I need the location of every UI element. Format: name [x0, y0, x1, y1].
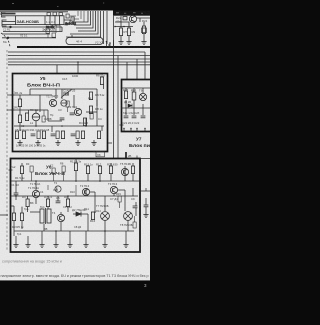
resistor R (far right)	[142, 26, 145, 34]
У6 transistor T3	[110, 186, 117, 193]
У6 cap C1	[14, 193, 19, 195]
block У5 frame	[13, 74, 108, 152]
vertical bus drop x113	[113, 16, 115, 158]
У5 ground 5	[91, 140, 96, 145]
У6 cap near right edge	[133, 206, 138, 208]
faint print specks in notch	[116, 12, 119, 13]
У6 top rail	[11, 180, 141, 182]
junction on node row	[10, 26, 12, 28]
У7 drops to caps	[125, 100, 127, 115]
У5 pin н tick right	[108, 142, 112, 144]
У6 ground row 7	[102, 242, 107, 247]
У7 resistor	[124, 91, 127, 99]
vertical bus drop x118	[117, 56, 119, 159]
У5 bottom cap a	[31, 134, 36, 136]
outer ground right of У6	[143, 212, 148, 217]
ground (far right)	[141, 39, 146, 44]
У5 cap C2	[60, 118, 65, 120]
У7 inner mid rail	[122, 107, 151, 109]
У5 bottom cap b	[51, 134, 56, 136]
wire across right cluster	[115, 26, 133, 28]
block У7 frame (right, power)	[122, 80, 151, 132]
У5 drop 3	[39, 95, 41, 112]
wire exiting У6 right edge	[140, 190, 150, 192]
exit wire tick	[145, 188, 147, 191]
wire left of transistor	[115, 21, 130, 23]
У6 bottom border junction dots	[27, 251, 117, 253]
У7 pin tick left	[120, 124, 124, 126]
bottom black photo bar	[0, 280, 150, 325]
У7 drop a	[125, 88, 127, 91]
У6 resistor R1 left	[20, 166, 23, 174]
У6 ground row 6	[83, 242, 88, 247]
bus wire 4	[8, 61, 150, 63]
У5 bottom row part 4	[61, 131, 64, 139]
vertical feed wire 2	[128, 22, 130, 28]
paper background	[0, 11, 150, 282]
У7 cap bank 3	[141, 116, 146, 118]
У6 resistor near T7	[91, 212, 94, 220]
tick on exit wire	[136, 156, 138, 159]
nested drop wire d	[78, 11, 96, 31]
У6 transistor T5	[121, 168, 128, 175]
У5 transistor T2	[74, 108, 81, 115]
tick pair above separator right	[113, 40, 115, 47]
connector ticks right of sleeve	[107, 42, 111, 47]
connector plug top-left 2	[2, 20, 7, 26]
wire above filter row 1	[0, 11, 68, 13]
У5 pin 2 tick	[11, 109, 15, 111]
У6 transistor T1	[32, 190, 39, 197]
wire exit right of У6	[140, 158, 150, 160]
plug pin wires	[2, 12, 16, 14]
У7 drop b	[133, 88, 135, 92]
У6 ground row 3	[39, 242, 44, 247]
small cap mark	[47, 13, 50, 16]
small res mark 2	[59, 13, 62, 16]
У5 IF transformer circle	[61, 100, 67, 106]
small component marks cluster above connector	[46, 12, 76, 29]
У5 bottom row part 1	[15, 131, 18, 139]
У6 resistor R13	[74, 163, 77, 171]
У6 ground row 1	[13, 242, 18, 247]
У5 wire row C (emitter rail)	[14, 125, 104, 127]
У5 drop from top rail	[29, 89, 31, 95]
nested drop wire f	[66, 11, 101, 37]
cable sleeve loop above separator	[66, 38, 103, 45]
У5 mid extra marks	[42, 101, 93, 122]
wire right of filter step	[64, 20, 75, 24]
У6 junction dots	[15, 180, 106, 232]
У6 drop f	[124, 166, 126, 181]
У6 resistor row3 b	[20, 213, 23, 221]
vertical bus drop x145	[144, 52, 146, 79]
sleeve left tick	[71, 35, 73, 38]
У7 drop c	[142, 88, 144, 93]
dashed screen curve bottom-left	[1, 33, 10, 47]
bus wire 5	[8, 64, 150, 66]
У7 choke winding 1	[132, 92, 136, 100]
wire lower mid row	[2, 33, 50, 35]
У7 cap bank 1	[124, 116, 129, 118]
У6 resistor R15	[86, 166, 89, 174]
У5 top-right resistor	[100, 77, 103, 85]
wire from transistor to right edge	[137, 17, 151, 19]
У7 inner top rail	[122, 87, 151, 89]
small cap far right	[142, 28, 147, 33]
У6 transformer Тр1 core	[40, 208, 51, 224]
У5 ground 2	[35, 140, 40, 145]
У7 pin ticks bottom	[124, 128, 145, 132]
dust specks in top bar	[12, 3, 14, 4]
У5 top-right drop	[103, 85, 105, 89]
У5 bottom border junction dots	[19, 151, 95, 153]
У5 bottom row part 3	[42, 131, 45, 139]
small marks under cluster	[66, 14, 69, 18]
У6 resistor row3 a	[12, 213, 15, 221]
У5 drop 2	[61, 89, 63, 99]
connector tag above У6	[96, 152, 105, 157]
У6 drop c	[87, 165, 89, 181]
top-right transistor stage	[115, 15, 150, 28]
long vertical to connector 2	[106, 11, 108, 44]
У6 small transistor extra	[55, 186, 61, 192]
У7 cap bank 2	[132, 116, 137, 118]
plug 2 pin wires	[2, 21, 16, 23]
У6 extra wiring grid	[11, 181, 137, 236]
resistor R (top right 1)	[119, 28, 122, 36]
wire above filter row 2	[0, 13, 16, 15]
nested drop wire c	[76, 11, 93, 28]
arrow tap on chassis line	[0, 214, 8, 216]
У6 drop e	[110, 163, 112, 166]
У6 ground row 5	[67, 242, 72, 247]
У5 pin 1 tick	[11, 94, 15, 96]
У5 resistor R2	[18, 115, 21, 123]
top-right black notch	[113, 11, 150, 16]
long vertical to connector	[103, 11, 105, 44]
У5 bottom extra rects	[37, 131, 40, 139]
У6 ground row 8	[123, 242, 128, 247]
У7 transistor (regulator)	[139, 93, 146, 100]
block У6 frame	[11, 159, 141, 253]
У6 cap row2 b	[56, 201, 61, 203]
У5 right rail drop	[96, 89, 98, 126]
nested drop wire a	[72, 11, 88, 22]
tick dots	[106, 41, 108, 43]
wire node row below filter	[2, 26, 46, 28]
У6 resistor R17	[98, 166, 101, 174]
У6 low rail	[14, 230, 134, 232]
junction on lower wire	[7, 37, 9, 39]
У5 resistor R5	[83, 118, 86, 126]
У6 ground row 2	[25, 242, 30, 247]
У6 left pin tick	[9, 169, 13, 171]
connector plug top-left 1	[2, 12, 6, 17]
staircase wire 2 from filter	[56, 25, 62, 27]
staircase wire 3	[46, 25, 60, 27]
extra texture marks top section	[46, 11, 84, 38]
vertical bus drop x127	[126, 62, 128, 79]
nested drop wire b	[74, 11, 91, 25]
У5 resistor R1	[18, 99, 21, 107]
ground (top right 2)	[126, 39, 131, 44]
У5 resistor R3	[25, 113, 28, 121]
base components mark	[123, 17, 127, 20]
mark cluster a	[46, 29, 49, 33]
У5 trimmer C14	[61, 89, 72, 98]
У5 wire row A	[13, 94, 53, 96]
У5 resistor R6	[89, 92, 92, 100]
wire lower row	[2, 37, 56, 39]
У5 extra wires	[20, 89, 102, 132]
bus tap into У5 second	[56, 65, 58, 73]
У5 mid rail junction dots	[35, 125, 87, 127]
У5 bottom row part 5	[81, 131, 84, 139]
resistor R (top right 2)	[127, 28, 130, 36]
thick separator line / figure border	[17, 46, 150, 48]
У6 ground row 4	[53, 242, 58, 247]
outer wire right of У6	[145, 198, 147, 205]
У5 transistor T1	[49, 99, 56, 106]
У5 coil L1	[32, 113, 40, 121]
У5 ground 1	[17, 140, 22, 145]
transistor T (top right)	[129, 15, 136, 22]
wire drops to grounds	[121, 18, 144, 39]
ground (top right 1)	[118, 39, 123, 44]
bus wire 3	[8, 58, 150, 60]
У6 drop d	[99, 165, 101, 181]
dashed chassis line left	[6, 50, 8, 250]
У6 output transistor T7	[101, 212, 110, 221]
У6 resistor R20	[109, 166, 112, 174]
У6 resistor row2 a	[46, 199, 49, 207]
У6 ground stubs	[16, 231, 126, 242]
У6 resistor row2 c	[66, 199, 69, 207]
top black photo bar	[0, 0, 150, 11]
У7 diode mark	[128, 104, 132, 108]
У6 drop g	[132, 163, 134, 181]
У6 resistor R21	[131, 166, 134, 174]
У5 bottom row part 6	[97, 131, 100, 139]
vertical bus drop x137	[136, 59, 138, 79]
У5 ground 3	[55, 140, 60, 145]
filter block (top-left rectangle)	[16, 16, 65, 25]
filter block section dividers	[44, 16, 46, 25]
scan grain overlay	[0, 11, 150, 282]
У5 ground 4	[75, 140, 80, 145]
bus wire 1	[8, 51, 145, 53]
У6 vol pot	[26, 199, 29, 212]
outer cap right of У6	[144, 205, 149, 207]
У5 resistor R8	[89, 106, 92, 114]
vertical feed wire	[120, 16, 122, 28]
У6 output transistor T8	[124, 212, 133, 221]
У6 transistor T2	[82, 188, 89, 195]
У6 drop b	[75, 159, 77, 164]
У5 bottom cap c	[71, 134, 76, 136]
У6 transistor T4	[57, 214, 64, 221]
bus tap into У5	[77, 62, 79, 73]
У7 pin dots	[123, 128, 124, 129]
mark cluster b vertical stubs under bar	[77, 11, 79, 16]
У5 cap C3	[70, 113, 75, 115]
nested drop wire e	[70, 11, 98, 34]
У6 drop a	[21, 163, 23, 166]
У6 mid rail	[11, 195, 139, 197]
У5 top rail	[30, 88, 97, 90]
wire label row	[3, 27, 62, 32]
У6 extra marks	[30, 166, 136, 228]
У6 diode Д1	[76, 212, 81, 217]
У5 bottom row part 2	[22, 131, 25, 139]
small res mark	[53, 12, 56, 15]
У5 pin wires from chassis	[7, 94, 13, 96]
У6 top-right bold stub to У7	[125, 152, 127, 159]
У5 wire row B	[13, 109, 49, 111]
bus wire 2	[8, 55, 150, 57]
